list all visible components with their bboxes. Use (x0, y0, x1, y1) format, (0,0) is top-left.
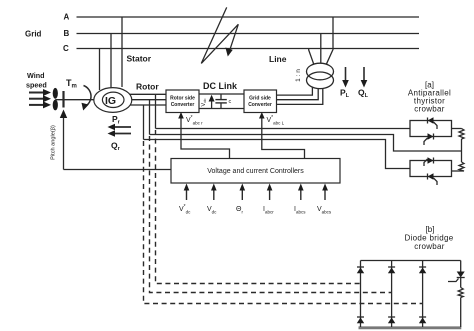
svg-text:Grid: Grid (25, 30, 42, 39)
wire stator phase A drop (121, 17, 123, 87)
dashed wire 3 to diode bridge (144, 141, 423, 304)
thyristor T1a (428, 117, 438, 129)
controllers box (171, 159, 340, 184)
svg-text:speed: speed (26, 81, 47, 90)
thyristor T1b (424, 133, 434, 145)
wire dc bus top (199, 93, 244, 95)
wire phase B bus (77, 33, 420, 35)
Tm label (66, 78, 77, 90)
wire dc bus bottom (199, 108, 244, 110)
thyristor pair box 2 (410, 161, 452, 177)
IG label (105, 95, 116, 107)
svg-text:IG: IG (105, 95, 116, 107)
svg-text:C: C (63, 44, 69, 53)
generator IG inner (102, 92, 124, 107)
svg-text:Pitch angle(β): Pitch angle(β) (51, 125, 57, 160)
QL arrow (361, 67, 368, 88)
wire converter to transformer 3 (277, 88, 323, 104)
turbine blade upper (53, 88, 58, 99)
crowbar resistor Rc (458, 278, 463, 328)
QL label (358, 88, 369, 100)
wire transformer to phase C (309, 49, 314, 65)
wire tap 2 (149, 100, 151, 135)
PL arrow (342, 67, 349, 88)
wire converter to transformer 2 (277, 89, 319, 100)
svg-text:Rotor: Rotor (136, 82, 159, 92)
Vdc measure arrow (209, 95, 215, 109)
rotor side converter box (166, 90, 199, 113)
thyristor pair box 1 (410, 121, 452, 137)
wire transformer to phase B (320, 34, 322, 64)
gearbox tick (62, 91, 64, 108)
wire crowbar feed 2 (150, 135, 462, 152)
VabcL label (267, 115, 285, 126)
transformer upper winding (307, 63, 334, 80)
PL label (340, 88, 350, 100)
generator IG outer (94, 88, 132, 113)
wind arrow 1 (29, 89, 51, 96)
Vdc rotated label (201, 99, 207, 107)
diode D2 top (388, 267, 395, 273)
crowbar a title (408, 81, 451, 114)
resistor R1 (452, 129, 465, 163)
wire stator phase C drop (99, 49, 101, 91)
Stator label (127, 54, 152, 64)
svg-text:Grid side: Grid side (249, 96, 271, 102)
Qr label (111, 141, 121, 153)
capacitor label c (229, 99, 232, 105)
wire rotor phase 1 (130, 93, 166, 95)
wind arrow 2 (29, 95, 51, 102)
pitch angle control wire (60, 110, 67, 170)
wire Vabcr control (178, 112, 229, 159)
Tm torque arc arrow (82, 86, 92, 111)
diode D3 top (419, 267, 426, 273)
svg-text:A: A (64, 13, 70, 22)
wire crowbar feed 1 (156, 128, 411, 130)
diode D3 bottom (419, 317, 426, 323)
diode D1 top (357, 267, 364, 273)
wire transformer to phase A (326, 17, 333, 64)
svg-text:c: c (229, 99, 232, 105)
svg-text:DC Link: DC Link (203, 81, 238, 91)
svg-text:Converter: Converter (171, 102, 195, 108)
fault lightning arrow (201, 7, 238, 63)
signal labels (179, 204, 332, 215)
Pr arrow (108, 124, 132, 130)
Pr label (112, 114, 121, 126)
svg-text:Converter: Converter (248, 102, 272, 108)
svg-text:B: B (64, 29, 70, 38)
Rotor label (136, 82, 159, 92)
Wind speed label (26, 71, 47, 90)
svg-text:crowbar: crowbar (414, 242, 445, 251)
controller input arrows (184, 184, 328, 201)
wire converter to transformer 1 (277, 87, 313, 96)
resistor R2 (452, 162, 465, 171)
Line label (269, 54, 287, 64)
thyristor T2a (424, 157, 434, 166)
1:n label (295, 69, 302, 82)
node A label (64, 13, 70, 22)
bridge leg 3 (422, 261, 424, 328)
Vabcr label (186, 115, 203, 126)
Grid label (25, 30, 42, 39)
wire phase C bus (77, 48, 420, 50)
wire rotor phase 3 (130, 104, 166, 106)
svg-text:crowbar: crowbar (414, 105, 445, 114)
DC Link label (203, 81, 238, 91)
capacitor C (215, 94, 226, 109)
dashed wire 1 to diode bridge (156, 130, 361, 284)
svg-text:Wind: Wind (27, 71, 45, 80)
bridge leg 2 (391, 261, 393, 328)
diode D2 bottom (388, 317, 395, 323)
node B label (64, 29, 70, 38)
svg-text:1 : n: 1 : n (295, 69, 302, 82)
wire rotor phase 2 (132, 99, 166, 101)
shaft wire (55, 99, 94, 101)
Qr arrow (108, 130, 132, 136)
diode D1 bottom (357, 317, 364, 323)
svg-text:Voltage and current Controller: Voltage and current Controllers (207, 168, 304, 175)
dashed wire 2 to diode bridge (150, 136, 392, 293)
wire tap 1 (155, 94, 157, 128)
wire VabcL control (259, 112, 305, 159)
svg-text:Vdc: Vdc (201, 99, 207, 107)
transformer lower winding (307, 72, 334, 89)
crowbar thyristor Tc (448, 261, 465, 282)
wire tap 3 (143, 105, 145, 140)
Pitch angle label (51, 125, 57, 160)
svg-text:Rotor side: Rotor side (170, 96, 195, 102)
wire crowbar feed 3 (144, 140, 411, 169)
diode bridge bottom rail (359, 326, 462, 329)
crowbar b title (405, 225, 454, 251)
bridge leg 1 (360, 261, 362, 328)
wire phase A bus (77, 16, 420, 18)
wind arrow 3 (29, 101, 51, 108)
grid side converter box (244, 90, 277, 113)
wire stator phase B drop (110, 34, 112, 89)
turbine blade lower (53, 100, 58, 111)
node C label (63, 44, 69, 53)
diode bridge top rail (361, 260, 461, 262)
thyristor T2b (428, 173, 438, 185)
svg-text:Line: Line (269, 54, 287, 64)
svg-text:Stator: Stator (127, 54, 152, 64)
wire pitch to controllers (64, 169, 172, 171)
